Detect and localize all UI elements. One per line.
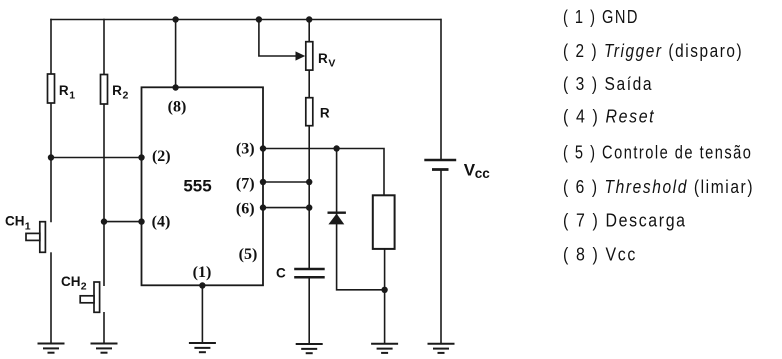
svg-text:R: R <box>59 83 69 98</box>
svg-text:(8): (8) <box>168 99 187 116</box>
svg-text:( 6 ) Threshold (limiar): ( 6 ) Threshold (limiar) <box>563 177 754 198</box>
ground (R1 / CH1 branch) <box>38 344 65 353</box>
svg-text:V: V <box>328 58 335 70</box>
node pin 1 at box <box>199 282 205 288</box>
svg-text:555: 555 <box>183 177 211 196</box>
svg-text:C: C <box>276 266 286 281</box>
svg-text:( 1 ) GND: ( 1 ) GND <box>563 7 639 28</box>
svg-text:R: R <box>318 51 328 66</box>
node pin 2 at box <box>138 154 144 160</box>
node pin 3 at box <box>260 145 266 151</box>
svg-text:R: R <box>320 106 330 121</box>
ground (capacitor C) <box>296 344 323 353</box>
potentiometer Rv <box>296 42 336 70</box>
node pin 4 at box <box>138 218 144 224</box>
svg-text:( 8 ) Vcc: ( 8 ) Vcc <box>563 243 637 264</box>
resistor (load, unlabeled) <box>373 195 395 249</box>
svg-text:( 4 ) Reset: ( 4 ) Reset <box>563 105 655 126</box>
legend line 5 Controle <box>563 142 752 163</box>
svg-text:( 5 ) Controle de tensão: ( 5 ) Controle de tensão <box>563 142 752 163</box>
wire pin 4 row <box>104 221 142 223</box>
legend line 3 Saida <box>563 74 653 95</box>
wire pin 1 drop <box>201 286 203 344</box>
svg-text:( 3 ) Saída: ( 3 ) Saída <box>563 74 653 95</box>
svg-text:CH: CH <box>5 214 25 229</box>
node pin8 / top rail <box>172 16 178 22</box>
node pin 6 at box <box>260 204 266 210</box>
resistor R1 <box>48 74 76 103</box>
wire R2 branch lower to ground <box>103 312 105 344</box>
svg-text:1: 1 <box>25 220 31 232</box>
wire R1 branch lower to ground <box>50 252 52 343</box>
node pin 7 at box <box>260 179 266 185</box>
wire Rv / R / C column <box>308 19 310 268</box>
pushbutton CH1 <box>5 214 45 253</box>
wire load resistor lower <box>384 249 386 344</box>
svg-text:2: 2 <box>123 90 129 102</box>
svg-text:( 2 ) Trigger (disparo): ( 2 ) Trigger (disparo) <box>563 41 743 62</box>
capacitor C <box>276 266 325 281</box>
wire top supply rail <box>50 19 441 21</box>
svg-text:(7): (7) <box>236 176 255 193</box>
wire R1 branch upper <box>50 19 52 223</box>
wire pin 8 drop <box>175 19 177 88</box>
node pin 2 / R1 <box>48 154 54 160</box>
legend line 6 Threshold <box>563 177 754 198</box>
resistor R2 <box>101 75 129 105</box>
diode D1 <box>328 213 346 225</box>
battery Vcc <box>424 160 490 181</box>
ground (pin 1) <box>189 343 216 352</box>
node pin 6 / R column <box>306 204 312 210</box>
svg-text:( 7 ) Descarga: ( 7 ) Descarga <box>563 209 687 230</box>
ground (battery) <box>428 344 455 353</box>
wire pin 7 row <box>263 181 309 183</box>
node Rv / top rail <box>306 16 312 22</box>
node diode / load resistor <box>381 287 387 293</box>
legend line 8 Vcc <box>563 243 637 264</box>
wire pin 2 row <box>51 157 142 159</box>
node pin 7 / R column <box>306 179 312 185</box>
svg-text:(2): (2) <box>152 148 171 165</box>
legend line 2 Trigger <box>563 41 743 62</box>
ground (load resistor) <box>371 344 398 353</box>
node wiper feed / top rail <box>256 16 262 22</box>
svg-text:CH: CH <box>61 274 81 289</box>
resistor R <box>306 98 330 126</box>
wire potentiometer wiper feed <box>259 19 297 56</box>
wire capacitor lower <box>308 278 310 344</box>
svg-text:(6): (6) <box>236 201 255 218</box>
wire diode branch <box>337 149 385 290</box>
svg-text:2: 2 <box>81 281 87 293</box>
svg-text:(5): (5) <box>239 246 258 263</box>
ground (CH2 branch) <box>91 344 118 353</box>
pushbutton CH2 <box>61 274 100 313</box>
wire pin 6 row <box>263 207 309 209</box>
svg-text:(1): (1) <box>193 264 212 281</box>
node pin 8 at box <box>172 84 178 90</box>
wire pin 3 row <box>263 149 384 196</box>
legend line 4 Reset <box>563 105 655 126</box>
legend line 1 GND <box>563 7 639 28</box>
legend line 7 Descarga <box>563 209 687 230</box>
wire battery lower to ground <box>440 170 442 344</box>
svg-text:(4): (4) <box>152 214 171 231</box>
svg-text:(3): (3) <box>236 141 255 158</box>
wire R2 branch upper <box>103 19 105 286</box>
svg-text:1: 1 <box>69 90 75 102</box>
node pin 3 / diode <box>333 145 339 151</box>
op-amp U1 555 timer box <box>142 87 264 285</box>
node pin 4 / R2 <box>101 218 107 224</box>
svg-text:cc: cc <box>475 166 491 181</box>
wire battery upper <box>440 19 442 160</box>
svg-text:R: R <box>112 83 122 98</box>
